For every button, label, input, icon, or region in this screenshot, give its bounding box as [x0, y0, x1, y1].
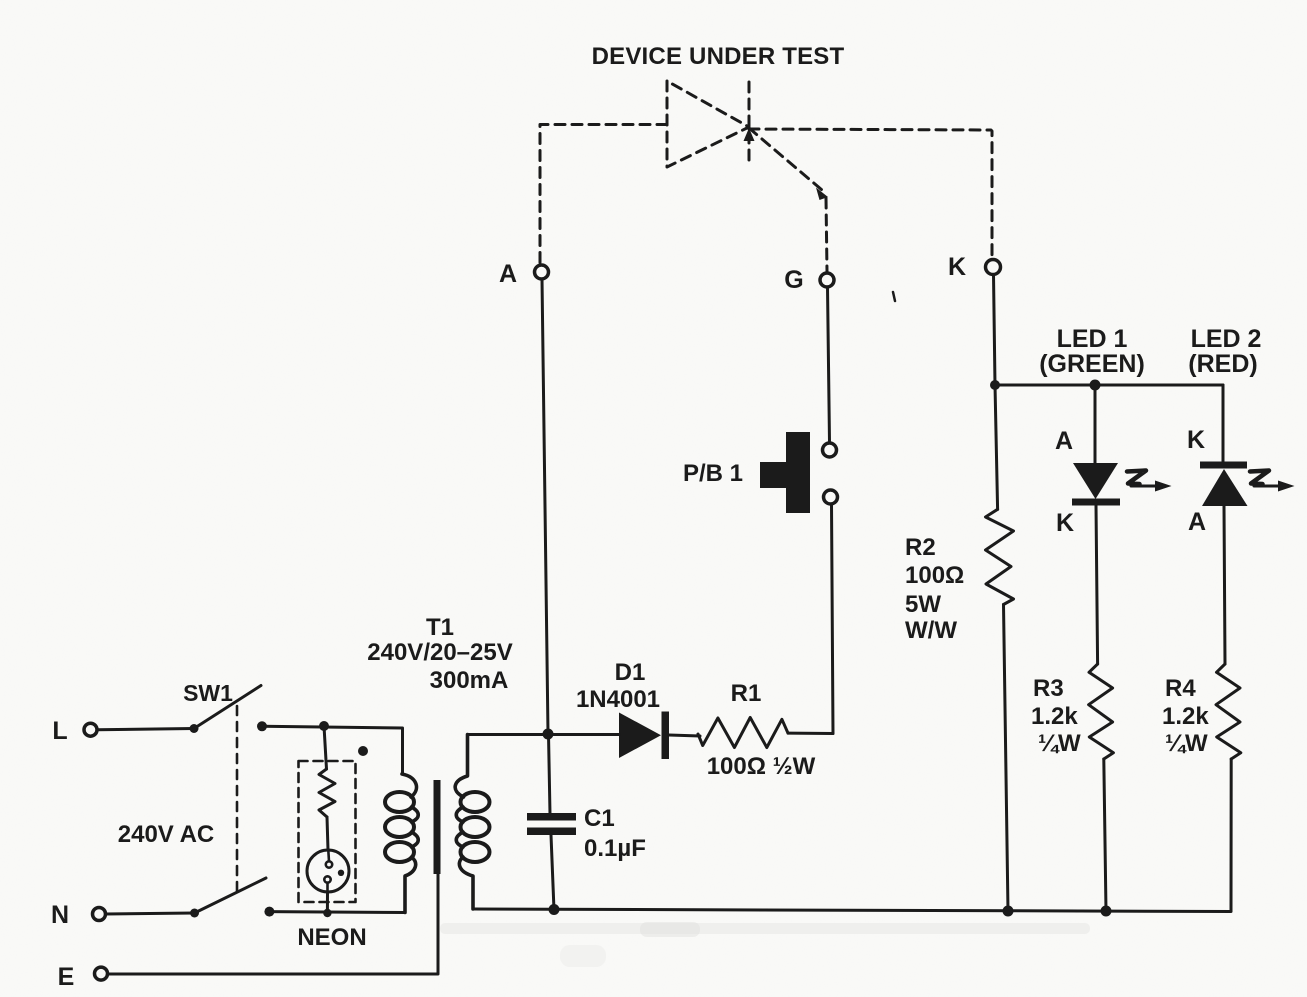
svg-text:T1: T1 — [426, 614, 454, 641]
wire G terminal down to push button — [828, 287, 830, 442]
LED rail top wire — [995, 385, 1223, 462]
svg-text:L: L — [52, 717, 67, 745]
svg-text:R1: R1 — [731, 680, 762, 707]
svg-text:A: A — [1055, 427, 1073, 455]
wire R2 upper lead — [995, 385, 998, 509]
resistor (neon ballast) — [319, 769, 335, 817]
wire LED2 upper lead — [1222, 385, 1225, 463]
node switch pivot bottom dot — [190, 909, 199, 918]
wire neon branch down — [324, 726, 327, 769]
wire R4 lower lead — [1230, 759, 1233, 911]
node N terminal — [93, 908, 106, 921]
node switch output bottom dot — [264, 907, 274, 917]
wire R3 lower lead — [1104, 759, 1106, 911]
svg-text:D1: D1 — [615, 659, 646, 686]
svg-text:LED 2: LED 2 — [1191, 325, 1262, 353]
wire K terminal down to LED rail — [994, 275, 996, 386]
svg-text:240V/20–25V: 240V/20–25V — [367, 639, 512, 666]
svg-text:100Ω ½W: 100Ω ½W — [707, 753, 816, 780]
node junction dot at C1 top — [543, 729, 554, 740]
wire L to switch — [97, 729, 194, 730]
wire R1 to push-button corner — [788, 732, 833, 735]
node G terminal — [820, 273, 834, 287]
svg-text:A: A — [1188, 508, 1206, 536]
svg-text:R4: R4 — [1165, 675, 1196, 702]
svg-text:C1: C1 — [584, 805, 615, 832]
resistor R1 — [698, 718, 788, 748]
svg-text:DEVICE UNDER TEST: DEVICE UNDER TEST — [592, 43, 845, 70]
svg-text:SW1: SW1 — [183, 680, 233, 706]
svg-text:(RED): (RED) — [1188, 350, 1257, 378]
svg-text:W/W: W/W — [905, 617, 957, 644]
node E terminal — [95, 967, 108, 980]
svg-text:E: E — [58, 963, 75, 991]
LED2 light arrow — [1250, 471, 1295, 492]
LED1 (green) diode — [1072, 463, 1120, 506]
neon bulb — [307, 850, 349, 892]
wire LED1 to R3 — [1096, 505, 1098, 664]
transformer T1 core — [434, 780, 441, 874]
svg-text:1.2k: 1.2k — [1031, 703, 1078, 730]
switch SW1 top blade — [194, 686, 261, 729]
svg-text:1N4001: 1N4001 — [576, 686, 660, 713]
transformer T1 secondary winding — [455, 735, 489, 910]
device under test SCR (dashed symbol) — [667, 81, 749, 167]
wire N to switch — [106, 913, 195, 914]
diode D1 1N4001 — [619, 712, 669, 760]
neon dashed enclosure box — [299, 761, 356, 902]
svg-text:¼W: ¼W — [1038, 730, 1081, 757]
push-button P/B1 — [760, 432, 838, 513]
svg-text:P/B 1: P/B 1 — [683, 460, 743, 487]
wire dashed A lead — [540, 125, 667, 265]
node K terminal — [986, 260, 1001, 275]
wire E to transformer core (earth) — [108, 874, 439, 974]
node neon branch junction dot — [319, 721, 329, 731]
svg-text:A: A — [499, 260, 517, 288]
svg-text:300mA: 300mA — [430, 667, 509, 694]
node switch output top dot — [257, 721, 267, 731]
svg-text:5W: 5W — [905, 591, 941, 618]
svg-text:K: K — [1056, 509, 1074, 537]
wire dashed G lead (gate of DUT) — [744, 128, 829, 271]
svg-text:1.2k: 1.2k — [1162, 703, 1209, 730]
switch SW1 bottom blade — [195, 878, 267, 913]
LED1 light arrow — [1127, 471, 1172, 492]
bottom rail wire — [473, 909, 1231, 912]
node junction dot C1 bottom — [549, 904, 560, 915]
wire D1 to R1 — [669, 735, 700, 736]
svg-text:(GREEN): (GREEN) — [1039, 350, 1145, 378]
wire switch to transformer primary top — [262, 726, 403, 774]
svg-text:N: N — [51, 901, 69, 929]
svg-text:NEON: NEON — [297, 924, 366, 951]
node switch pivot top dot — [190, 724, 199, 733]
svg-text:0.1µF: 0.1µF — [584, 835, 646, 862]
resistor R3 — [1089, 664, 1114, 759]
wire dashed K lead — [749, 129, 992, 259]
wire A terminal down to D1 node — [542, 279, 548, 733]
svg-text:240V AC: 240V AC — [118, 821, 215, 848]
wire neon bulb to bottom — [326, 892, 329, 913]
node A terminal — [535, 265, 549, 279]
node L terminal — [84, 723, 97, 736]
capacitor C1 — [527, 734, 576, 910]
wire switch to transformer primary bottom — [269, 910, 405, 914]
stray dot — [358, 746, 368, 756]
transformer T1 primary winding — [385, 774, 418, 913]
svg-text:G: G — [784, 266, 803, 294]
svg-text:R3: R3 — [1033, 675, 1064, 702]
resistor R2 — [986, 509, 1014, 604]
svg-text:R2: R2 — [905, 534, 936, 561]
node junction dot R3 bottom — [1101, 906, 1112, 917]
faint scan smudge under bottom rail — [440, 923, 1090, 934]
svg-text:K: K — [948, 253, 966, 281]
svg-text:K: K — [1187, 426, 1205, 454]
wire secondary top to D1 — [468, 733, 620, 736]
svg-text:LED 1: LED 1 — [1057, 325, 1128, 353]
node neon bottom junction dot — [323, 909, 331, 917]
stray mark — [893, 292, 895, 301]
wire LED2 to R4 — [1224, 506, 1225, 664]
node junction dot K rail left — [990, 380, 1000, 390]
wire resistor to neon bulb — [327, 817, 328, 850]
resistor R4 — [1216, 664, 1241, 759]
switch SW1 link (dashed) — [236, 706, 239, 891]
wire R2 lower lead — [1004, 605, 1009, 912]
node junction dot LED1 branch — [1090, 380, 1101, 391]
LED2 (red) diode — [1200, 462, 1248, 507]
svg-text:100Ω: 100Ω — [905, 562, 964, 589]
wire LED1 upper lead — [1094, 385, 1097, 464]
node junction dot R2 bottom — [1003, 906, 1014, 917]
svg-text:¼W: ¼W — [1165, 730, 1208, 757]
wire push button to R1 corner — [832, 504, 834, 734]
